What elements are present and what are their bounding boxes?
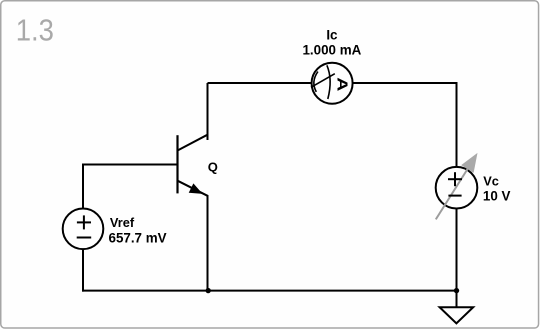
wire base (Vref to transistor base) xyxy=(83,165,178,209)
ammeter A xyxy=(311,63,353,104)
svg-text:1.000 mA: 1.000 mA xyxy=(302,43,361,58)
junction emitter-bottom rail xyxy=(206,288,211,293)
svg-text:Vc: Vc xyxy=(483,174,499,189)
label Vref 657.7 mV xyxy=(109,215,167,245)
svg-text:Ic: Ic xyxy=(326,28,338,43)
junction ground node xyxy=(454,288,459,293)
svg-text:A: A xyxy=(334,77,351,92)
transistor Q xyxy=(178,135,208,200)
svg-text:657.7 mV: 657.7 mV xyxy=(109,230,167,245)
svg-text:Vref: Vref xyxy=(110,215,135,230)
wire ground stub xyxy=(456,291,458,308)
wire Vc to ground node xyxy=(456,209,458,291)
wire Vref to bottom rail xyxy=(82,249,84,292)
wire bottom rail xyxy=(82,290,457,292)
wire emitter to bottom rail xyxy=(207,199,209,291)
svg-text:10 V: 10 V xyxy=(483,189,511,204)
wire top rail left (collector to ammeter) xyxy=(208,82,312,84)
label Vc 10 V xyxy=(483,174,511,204)
svg-text:Q: Q xyxy=(208,160,218,175)
label Ic 1.000 mA xyxy=(302,28,361,58)
wire collector to top rail xyxy=(207,83,209,139)
ground xyxy=(440,307,474,323)
svg-text:1.3: 1.3 xyxy=(16,13,54,48)
voltage source Vc (variable) xyxy=(436,153,478,220)
wire top rail right (ammeter to Vc) xyxy=(353,83,457,167)
voltage source Vref xyxy=(63,209,104,250)
